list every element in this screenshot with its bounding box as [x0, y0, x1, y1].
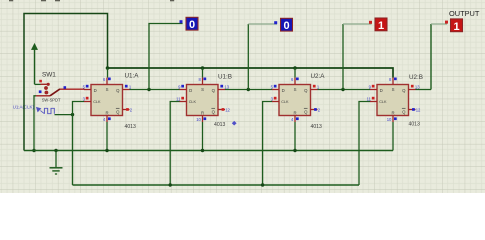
switch SW1 (SW-SPDT) [36, 72, 61, 103]
D flip-flop U1:B (4013) [187, 85, 219, 116]
svg-text:0: 0 [189, 19, 195, 31]
svg-text:13: 13 [415, 85, 420, 90]
pin Q-bar (12) of U1:B [218, 107, 231, 112]
pin S (8) of U1:B [199, 77, 207, 84]
pin D (9) of U2:B [369, 84, 377, 89]
pin R (4) of U1:A [103, 116, 111, 123]
node ground bus at U1:B R [201, 149, 204, 152]
pin R (10) of U2:B [387, 116, 397, 123]
node probe1 riser junction [147, 88, 150, 91]
svg-text:10: 10 [387, 117, 392, 122]
svg-text:CLK: CLK [93, 100, 101, 104]
wire riser to probe 1 [149, 24, 183, 90]
wire VCC to SW1 throw 1 [35, 83, 41, 85]
pin S (6) of U2:A [291, 77, 299, 84]
node ground bus at U1:A R [105, 149, 108, 152]
pin D (5) of U2:A [271, 84, 279, 89]
wire S-pin bus (y=68) [108, 68, 394, 78]
pin Q-bar (2) of U2:A [311, 107, 321, 112]
pin Q-bar (2) of U1:A [123, 107, 133, 112]
svg-text:4013: 4013 [214, 122, 225, 128]
svg-text:12: 12 [416, 107, 421, 112]
wire riser to probe 3 [342, 24, 344, 90]
logic probe P4 OUTPUT [445, 19, 463, 33]
wire clock riser to U1:B CLK [170, 102, 180, 186]
svg-text:SW-SPDT: SW-SPDT [42, 97, 61, 102]
pin Q-bar (12) of U2:B [409, 107, 422, 112]
wire clock riser to U2:A CLK [263, 102, 273, 186]
svg-text:S: S [201, 87, 204, 92]
pin CLK (11) of U1:B [176, 96, 186, 101]
pin Q (1) of U2:A [311, 85, 320, 90]
wire SW1 pole to U1:A D pin (logic high, red) [60, 88, 84, 90]
wire clock bus (y=185) [73, 184, 360, 186]
pin R (4) of U2:A [291, 116, 299, 123]
svg-text:1: 1 [378, 20, 384, 32]
svg-text:U1:B: U1:B [218, 74, 232, 81]
svg-text:13: 13 [224, 85, 229, 90]
svg-text:U2:B: U2:B [409, 74, 423, 81]
pin D (5) of U1:A [83, 84, 91, 89]
wire ground bus (y=150.5) [24, 150, 393, 152]
power symbol VCC arrow [32, 44, 38, 85]
svg-text:R: R [201, 110, 204, 115]
svg-text:U1:A: U1:A [125, 73, 140, 80]
node ground bus at GND stub [54, 149, 57, 152]
pin CLK (3) of U1:A [83, 96, 91, 101]
svg-text:11: 11 [367, 96, 372, 101]
pin CLK (3) of U2:A [271, 96, 279, 101]
node probe3 riser junction [341, 88, 344, 91]
ground symbol [50, 151, 63, 175]
svg-text:CLK: CLK [189, 100, 197, 104]
wire clock generator to clock node [55, 114, 73, 116]
svg-text:S: S [294, 87, 297, 92]
svg-text:CLK: CLK [379, 100, 387, 104]
logic probe P3 (bit 2) [369, 18, 387, 32]
svg-text:SW1: SW1 [42, 72, 56, 79]
node: clock junction [71, 113, 74, 116]
cropped toolbar text remnants [9, 0, 13, 1]
pin S (6) of U1:A [103, 77, 111, 84]
wire set-bus loop: ground bus left end up, across top, down to S bus [24, 14, 108, 151]
svg-text:12: 12 [225, 107, 230, 112]
wire clock node down to clock bus [72, 115, 74, 185]
svg-text:S: S [392, 87, 395, 92]
pin CLK (11) of U2:B [367, 96, 377, 101]
svg-text:4013: 4013 [311, 124, 322, 130]
svg-text:CLK: CLK [281, 100, 289, 104]
svg-text:D: D [94, 88, 97, 93]
wire SW1 throw 2 to ground bus riser [34, 96, 36, 151]
node clock bus at U1:B riser [169, 183, 172, 186]
svg-text:D: D [380, 88, 383, 93]
node S bus at U1:A [106, 66, 110, 70]
wire clock riser to U2:B CLK [359, 102, 370, 186]
wire S bus drops to S pins [107, 68, 109, 78]
clock generator U1:A(CLK) DCLOCK symbol [13, 104, 55, 113]
pin Q (1) of U1:A [123, 85, 132, 90]
svg-text:R: R [293, 110, 296, 115]
wire R-pin drops to ground bus [106, 122, 108, 151]
D flip-flop U2:A (4013) [279, 85, 311, 116]
wire Q(U1:B) to D(U2:A) [225, 89, 272, 91]
node ground bus at U2:A R [293, 149, 296, 152]
node S bus at U1:B [201, 66, 205, 70]
pin S (8) of U2:B [389, 77, 397, 84]
wire Q(U2:A) to D(U2:B) [318, 89, 371, 91]
svg-text:S: S [106, 87, 109, 92]
svg-text:4013: 4013 [125, 124, 136, 130]
origin marker diamond [232, 121, 237, 126]
wire riser to probe 4 (OUTPUT) [430, 24, 432, 90]
pin D (9) of U1:B [178, 84, 186, 89]
node S bus at U2:A [293, 66, 297, 70]
svg-text:U2:A: U2:A [311, 73, 326, 80]
node: switch-ground riser joins ground bus [32, 149, 35, 152]
svg-text:R: R [391, 110, 394, 115]
svg-text:1: 1 [453, 21, 459, 33]
svg-text:D: D [189, 88, 192, 93]
wire riser to probe 2 [247, 24, 249, 90]
wire Q(U2:B) to probe 4 riser [416, 89, 432, 91]
logic probe P1 (bit 0) [180, 17, 199, 31]
svg-text:10: 10 [196, 117, 201, 122]
svg-text:D: D [282, 88, 285, 93]
wire clock node up to U1:A CLK pin [73, 102, 85, 115]
node clock bus at U2:A riser [261, 183, 264, 186]
svg-text:0: 0 [283, 20, 289, 32]
logic probe P2 (bit 1) [274, 18, 292, 32]
pin R (10) of U1:B [196, 116, 206, 123]
svg-text:11: 11 [176, 96, 181, 101]
svg-text:OUTPUT: OUTPUT [449, 9, 480, 18]
pin Q (13) of U2:B [409, 85, 421, 90]
D flip-flop U1:A (4013) [91, 85, 123, 116]
svg-text:R: R [105, 110, 108, 115]
D flip-flop U2:B (4013) [377, 85, 409, 116]
pin Q (13) of U1:B [218, 85, 230, 90]
node probe2 riser junction [247, 88, 250, 91]
wire Q(U1:A) to D(U1:B) [130, 89, 180, 91]
svg-text:4013: 4013 [409, 122, 420, 128]
